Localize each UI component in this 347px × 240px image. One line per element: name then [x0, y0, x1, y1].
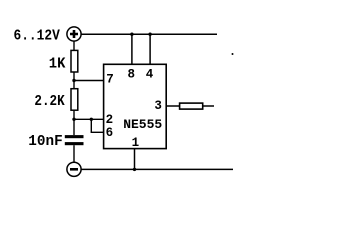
minus terminal — [67, 162, 81, 176]
svg-text:3: 3 — [154, 99, 162, 113]
svg-text:1K: 1K — [49, 57, 66, 73]
svg-text:7: 7 — [106, 72, 114, 86]
wire pin 8 to supply — [131, 34, 133, 64]
node R2-C1-pin2 junction — [72, 118, 75, 121]
wire bottom return — [81, 168, 233, 170]
capacitor C1 10nF top plate — [65, 135, 84, 138]
wire top supply — [81, 33, 217, 35]
capacitor C1 10nF bottom plate — [65, 142, 84, 145]
svg-text:4: 4 — [146, 68, 154, 82]
svg-text:NE555: NE555 — [123, 117, 162, 132]
wire pin 3 to R3 — [166, 105, 179, 107]
node R1-R2-pin7 junction — [72, 79, 75, 82]
svg-text:10nF: 10nF — [28, 134, 62, 150]
wire pin6 jog down — [90, 119, 92, 132]
wire pin 1 to return — [134, 149, 136, 170]
wire R2 to capacitor — [73, 110, 75, 135]
svg-text:1: 1 — [132, 136, 140, 150]
wire junction to pin 7 — [74, 80, 104, 82]
node pin6 tap junction — [90, 118, 93, 121]
wire R1 to R2 — [73, 72, 75, 89]
wire pin 4 to supply — [149, 34, 151, 64]
resistor R3 output — [180, 103, 203, 109]
svg-text:6..12V: 6..12V — [14, 29, 61, 45]
wire plus to R1 — [73, 41, 75, 50]
plus terminal — [67, 27, 81, 41]
node pin8 supply junction — [130, 33, 133, 36]
wire capacitor to minus terminal — [73, 145, 75, 162]
wire junction to pin 2 — [74, 118, 104, 120]
wire R3 output stub — [203, 105, 214, 107]
resistor R2 2.2K — [71, 89, 78, 111]
node pin1 return junction — [133, 168, 136, 171]
wire jog to pin 6 — [91, 131, 104, 133]
svg-text:8: 8 — [128, 68, 136, 82]
node pin4 supply junction — [148, 33, 151, 36]
svg-text:6: 6 — [106, 126, 114, 140]
stray ink dot — [232, 53, 234, 55]
svg-text:2.2K: 2.2K — [34, 94, 65, 110]
op-amp U1 NE555 body — [104, 64, 167, 148]
resistor R1 1K — [71, 50, 78, 72]
